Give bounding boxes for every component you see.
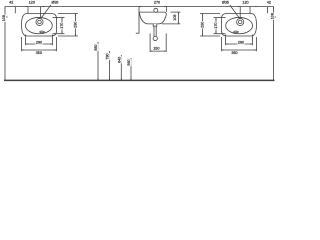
svg-text:170: 170 [214,23,218,29]
svg-text:108: 108 [173,15,177,21]
svg-text:350: 350 [231,51,237,55]
svg-text:108: 108 [2,15,6,21]
svg-text:290: 290 [36,40,42,44]
svg-text:250: 250 [201,22,205,28]
svg-text:120: 120 [29,1,35,5]
svg-text:170: 170 [60,23,64,29]
svg-text:42: 42 [9,1,13,5]
svg-text:645: 645 [118,57,122,63]
svg-text:790: 790 [106,53,110,59]
svg-text:120: 120 [242,1,248,5]
svg-text:Ø35: Ø35 [222,1,229,5]
svg-text:560: 560 [127,59,131,65]
svg-text:850: 850 [94,44,98,50]
svg-text:42: 42 [267,1,271,5]
svg-text:150: 150 [153,46,159,50]
svg-text:290: 290 [238,40,244,44]
svg-text:Ø35: Ø35 [52,1,59,5]
svg-text:350: 350 [36,51,42,55]
svg-text:108: 108 [271,13,275,19]
svg-text:250: 250 [74,22,78,28]
svg-text:270: 270 [154,1,160,5]
